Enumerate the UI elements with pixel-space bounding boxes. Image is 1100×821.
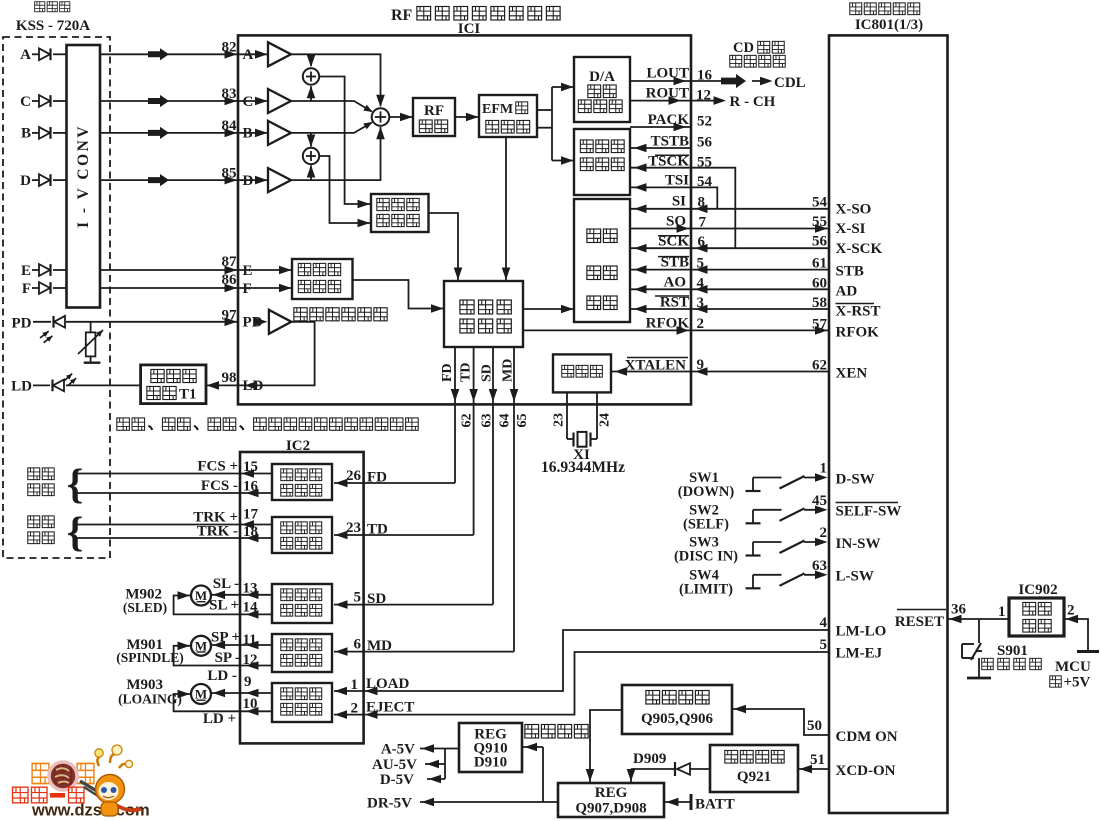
svg-text:(SELF): (SELF): [683, 516, 729, 532]
IC2 title 聚焦、跟踪、雪橇、主轴及加载电机驱动电路: [117, 418, 130, 430]
ROUT output arrow to R-CH: [691, 100, 717, 102]
crystal X1 16.9344MHz: [566, 392, 568, 439]
reset switch S901 复位开关: [978, 619, 980, 643]
svg-text:6: 6: [354, 637, 362, 653]
svg-text:KSS - 720A: KSS - 720A: [16, 18, 90, 34]
pin row SI / X-SO 54: [630, 208, 829, 210]
svg-text:63: 63: [480, 414, 495, 428]
svg-text:CD: CD: [733, 40, 754, 56]
svg-text:84: 84: [222, 118, 238, 134]
IC801 box outline: [829, 35, 948, 813]
svg-text:+5V: +5V: [1064, 675, 1091, 691]
LOUT output thick arrow to CDL: [691, 80, 722, 82]
laser driver box 激光管驱动T1: [141, 365, 206, 404]
svg-text:SP +: SP +: [211, 630, 240, 646]
svg-text:FD: FD: [440, 363, 455, 382]
summing node S3 main: [372, 108, 390, 126]
svg-text:AU-5V: AU-5V: [372, 757, 417, 773]
svg-text:SD: SD: [367, 591, 386, 607]
system controller title 系统控制器 IC801(1/3): [850, 3, 862, 15]
svg-text:23: 23: [346, 520, 361, 536]
svg-text:2: 2: [820, 525, 828, 541]
wire A branch to S1: [310, 54, 312, 66]
watermark logo dzsc: [13, 745, 150, 820]
svg-text:1: 1: [820, 461, 828, 477]
svg-text:AO: AO: [664, 275, 687, 291]
loading motor driver 加载电机驱动 box: [272, 683, 332, 722]
svg-text:X-SI: X-SI: [836, 221, 866, 237]
svg-text:MD: MD: [367, 638, 392, 654]
svg-text:16: 16: [243, 479, 259, 495]
svg-text:SELF-SW: SELF-SW: [836, 504, 902, 520]
svg-text:D-5V: D-5V: [380, 772, 414, 788]
switch SW2 (SELF): [753, 509, 782, 511]
svg-text:Q905,Q906: Q905,Q906: [641, 711, 714, 727]
svg-text:A-5V: A-5V: [381, 742, 415, 758]
svg-text:55: 55: [697, 155, 712, 171]
svg-text:52: 52: [697, 114, 712, 130]
wire power control down to REG Q907: [590, 710, 622, 783]
amplifier B: [238, 132, 268, 134]
svg-text:55: 55: [812, 214, 827, 230]
svg-text:54: 54: [812, 195, 828, 211]
wire CDM ON pin50 to power control: [732, 709, 829, 735]
wire EFM outputs to DAC and encoder: [537, 109, 552, 111]
wire focus error det to servo: [429, 213, 459, 281]
svg-text:SL +: SL +: [209, 598, 239, 614]
RESET pin 36 wire: [948, 618, 1010, 620]
variable resistor on PD line: [90, 322, 92, 333]
wire EFM down to servo control: [505, 137, 507, 281]
svg-text:14: 14: [243, 600, 259, 616]
wire B branch to S2: [310, 133, 312, 147]
pin row SO / X-SI 55: [630, 228, 829, 230]
I-V converter box: [67, 45, 101, 308]
svg-text:Q907,D908: Q907,D908: [575, 801, 646, 817]
svg-text:(SPINDLE): (SPINDLE): [116, 650, 184, 665]
regulator box REG Q910 D910: [459, 723, 522, 772]
svg-text:4: 4: [697, 276, 705, 292]
sled motor M902: [191, 586, 211, 606]
svg-text:Q921: Q921: [737, 769, 771, 785]
svg-text:RF: RF: [424, 103, 444, 119]
summing node S1: [303, 68, 319, 84]
svg-text:62: 62: [812, 358, 827, 374]
svg-text:XCD-ON: XCD-ON: [836, 763, 896, 779]
svg-text:REG: REG: [595, 785, 628, 801]
svg-text:60: 60: [812, 276, 827, 292]
svg-text:STB: STB: [836, 264, 864, 280]
svg-text:2: 2: [351, 701, 359, 717]
svg-text:26: 26: [346, 468, 362, 484]
wire A output to S3: [292, 54, 381, 106]
wire XCD-ON pin51 to Q921: [798, 768, 829, 770]
digital encode control box 数字编码控制: [574, 129, 630, 195]
wire S1 output to focus error det: [319, 77, 371, 205]
focus coil wires FCS+ FCS-: [73, 473, 272, 475]
focus coil 聚焦线圈: [28, 468, 40, 480]
svg-text:(DISC IN): (DISC IN): [674, 549, 738, 565]
pin row TSTB: [630, 147, 691, 149]
svg-text:16.9344MHz: 16.9344MHz: [541, 459, 625, 476]
oscillator box 振荡器: [553, 354, 611, 392]
svg-text:17: 17: [243, 507, 259, 523]
loading motor M903: [191, 684, 211, 704]
svg-text:50: 50: [807, 718, 822, 734]
svg-text:AD: AD: [836, 284, 858, 300]
wire E into tracking error det: [238, 269, 292, 271]
tracking error detection box 跟踪错误检测: [292, 259, 353, 299]
svg-text:M: M: [195, 588, 207, 603]
amplifier A: [238, 53, 268, 55]
switch SW1 (DOWN): [753, 477, 782, 479]
svg-text:EJECT: EJECT: [366, 700, 414, 716]
svg-text:63: 63: [812, 558, 827, 574]
svg-text:A: A: [20, 47, 31, 63]
svg-text:15: 15: [243, 459, 258, 475]
svg-text:FCS -: FCS -: [201, 478, 238, 494]
svg-text:11: 11: [243, 632, 257, 648]
tracking coil wires TRK+ TRK-: [73, 524, 272, 526]
diode D909: [690, 768, 710, 770]
svg-text:D: D: [20, 173, 31, 189]
spindle motor driver 主轴电机驱动 box: [272, 634, 332, 672]
wire APC loop to laser driver pin98: [206, 322, 315, 386]
servo control box 伺服控制电路: [444, 281, 523, 347]
svg-text:DR-5V: DR-5V: [367, 796, 412, 812]
wire RF to EFM: [455, 116, 479, 118]
svg-text:23: 23: [552, 413, 567, 427]
EFM demodulator box EFM解调电路: [479, 95, 537, 137]
svg-text:2: 2: [697, 316, 705, 332]
svg-text:56: 56: [697, 135, 713, 151]
svg-text:9: 9: [697, 357, 705, 373]
svg-text:1: 1: [998, 604, 1006, 620]
svg-text:85: 85: [222, 165, 237, 181]
regulator box REG Q907 D908: [558, 783, 664, 817]
svg-text:64: 64: [498, 414, 513, 428]
svg-text:83: 83: [222, 86, 237, 102]
pin row STB / STB 61: [630, 269, 829, 271]
svg-text:SO: SO: [666, 214, 686, 230]
svg-text:B: B: [21, 126, 31, 142]
svg-text:10: 10: [243, 696, 258, 712]
power control box 电源控制 Q921: [710, 745, 798, 792]
svg-text:12: 12: [243, 652, 258, 668]
switch SW3 (DISC IN): [753, 541, 782, 543]
svg-text:57: 57: [812, 317, 828, 333]
svg-text:ROUT: ROUT: [646, 86, 689, 102]
svg-text:LM-EJ: LM-EJ: [836, 646, 883, 662]
wire E to ICI pin: [100, 269, 238, 271]
pin row AO / AD 60: [630, 288, 829, 290]
svg-text:C: C: [20, 94, 31, 110]
svg-text:R - CH: R - CH: [730, 94, 776, 110]
wire tracking error det to servo: [353, 280, 445, 309]
focus coil driver 聚焦线圈驱动 box: [272, 464, 332, 500]
svg-text:T1: T1: [179, 387, 197, 403]
svg-text:D909: D909: [633, 751, 666, 767]
svg-text:5: 5: [697, 256, 705, 272]
battery BATT input: [690, 794, 693, 810]
svg-text:M: M: [195, 687, 207, 702]
wire REG Q907 output to DR-5V and REG Q910: [420, 801, 558, 803]
pin row SCK / X-SCK 56: [630, 247, 829, 249]
svg-text:D910: D910: [474, 755, 507, 771]
svg-text:58: 58: [812, 295, 827, 311]
svg-text:TRK -: TRK -: [197, 524, 238, 540]
svg-text:RST: RST: [660, 295, 689, 311]
svg-text:IC902: IC902: [1018, 582, 1057, 598]
svg-text:X-SO: X-SO: [836, 202, 872, 218]
svg-text:RFOK: RFOK: [646, 316, 690, 332]
wire B to ICI pin: [100, 132, 238, 134]
svg-text:36: 36: [951, 602, 967, 618]
svg-text:L-SW: L-SW: [836, 569, 874, 585]
control interface box 控制接口电路: [574, 199, 630, 322]
svg-text:IN-SW: IN-SW: [836, 536, 881, 552]
wire C to ICI pin: [100, 100, 238, 102]
wire F into tracking error det: [238, 287, 292, 289]
svg-text:5: 5: [354, 590, 362, 606]
svg-text:PD: PD: [12, 316, 32, 332]
switch SW4 (LIMIT): [753, 574, 782, 576]
wire C branch to S1: [310, 86, 312, 101]
svg-text:BATT: BATT: [695, 797, 735, 813]
tracking coil 跟踪线圈: [28, 516, 40, 528]
svg-text:I - V CONV: I - V CONV: [75, 124, 92, 228]
svg-text:SI: SI: [672, 194, 686, 210]
svg-text:EFM: EFM: [482, 102, 513, 117]
wire S3 output to RF processing: [389, 116, 413, 118]
pin row XTALEN / XEN 62: [611, 371, 829, 373]
svg-text:TSTB: TSTB: [651, 134, 689, 150]
svg-text:5: 5: [820, 637, 828, 653]
svg-text:(LOAING): (LOAING): [118, 692, 182, 707]
power section label 电源部分: [525, 724, 539, 738]
pin row TSI with jog to SI: [630, 186, 691, 188]
svg-text:98: 98: [222, 370, 237, 386]
wire servo to control interface: [523, 308, 574, 310]
svg-text:1: 1: [351, 677, 359, 693]
svg-text:56: 56: [812, 234, 828, 250]
wire B output to S3: [292, 123, 372, 133]
ICI box outline: [238, 35, 691, 404]
svg-text:4: 4: [820, 615, 828, 631]
svg-text:MD: MD: [501, 359, 516, 382]
svg-text:LM-LO: LM-LO: [836, 624, 887, 640]
svg-text:(SLED): (SLED): [123, 600, 167, 615]
wire LM-EJ to EJECT: [334, 652, 829, 715]
svg-text:6: 6: [698, 234, 706, 250]
wire S2 output to focus error det: [319, 156, 371, 223]
wire F to ICI pin: [100, 287, 238, 289]
svg-text:X-RST: X-RST: [836, 304, 881, 320]
wire C output to S3: [292, 101, 372, 112]
svg-text:(LIMIT): (LIMIT): [679, 581, 733, 597]
svg-text:F: F: [22, 281, 31, 297]
svg-text:MCU: MCU: [1055, 659, 1091, 675]
pin rows LOUT ROUT: [630, 80, 691, 82]
wire D909 down to REG Q907: [630, 769, 632, 783]
spindle motor M901: [191, 636, 211, 656]
svg-text:18: 18: [243, 524, 258, 540]
svg-text:CDM ON: CDM ON: [836, 729, 898, 745]
svg-text:RF: RF: [391, 7, 413, 24]
wire IC902 pin2 to MCU +5V: [1064, 619, 1088, 650]
svg-text:97: 97: [222, 308, 238, 324]
svg-text:PACK: PACK: [648, 112, 690, 128]
svg-text:24: 24: [598, 413, 613, 427]
DAC box D/A数模转换器: [574, 57, 630, 122]
svg-text:(DOWN): (DOWN): [678, 484, 735, 500]
wire A to ICI pin: [100, 53, 238, 55]
svg-text:M: M: [195, 638, 207, 653]
wire LM-LO to LOAD: [334, 630, 829, 691]
pin row RST / X-RST 58: [630, 308, 829, 310]
svg-text:TD: TD: [459, 363, 474, 382]
svg-text:SL -: SL -: [213, 576, 239, 592]
svg-text:3: 3: [697, 295, 705, 311]
svg-text:RFOK: RFOK: [836, 325, 880, 341]
RF processing box RF处理: [413, 98, 455, 136]
svg-text:LD: LD: [11, 379, 32, 395]
wire D branch to S2: [310, 166, 312, 181]
svg-text:62: 62: [460, 414, 475, 428]
svg-text:7: 7: [699, 215, 707, 231]
summing node S2: [303, 148, 319, 164]
svg-text:87: 87: [222, 254, 238, 270]
svg-text:SP -: SP -: [215, 650, 240, 666]
svg-text:{: {: [67, 510, 84, 556]
wire D output to S3: [292, 127, 381, 180]
svg-text:65: 65: [515, 414, 530, 428]
svg-text:CDL: CDL: [774, 75, 806, 91]
laser head dashed enclosure: [3, 37, 110, 558]
focus error detection box 聚焦错误检测: [371, 194, 429, 232]
svg-text:8: 8: [698, 195, 706, 211]
amplifier C: [238, 100, 268, 102]
servo drive lines FD TD SD MD: [454, 347, 456, 404]
PD light arrows: [40, 331, 49, 338]
svg-text:9: 9: [244, 674, 252, 690]
IC2 box outline: [240, 452, 364, 743]
tracking coil driver 跟踪线圈驱动 box: [272, 517, 332, 553]
svg-text:2: 2: [1067, 603, 1075, 619]
svg-text:FD: FD: [367, 470, 387, 486]
LD light arrows: [64, 374, 72, 381]
svg-text:LD -: LD -: [207, 668, 237, 684]
svg-text:X-SCK: X-SCK: [836, 241, 883, 257]
svg-text:86: 86: [222, 272, 238, 288]
pin row PACK: [630, 126, 691, 128]
pin row TSCK with jog to X-SCK: [630, 167, 691, 169]
amplifier D: [238, 179, 268, 181]
pin row RFOK / RFOK 57: [523, 329, 829, 331]
power control box 电源控制 Q905 Q906: [622, 685, 732, 734]
svg-text:RESET: RESET: [895, 614, 944, 630]
svg-text:LOAD: LOAD: [366, 676, 410, 692]
svg-text:E: E: [21, 263, 31, 279]
svg-text:XEN: XEN: [836, 366, 868, 382]
outputs A-5V AU-5V D-5V: [420, 748, 459, 750]
svg-text:51: 51: [810, 752, 825, 768]
laser head title 激光头 KSS-720A: [35, 2, 45, 12]
svg-text:TSI: TSI: [665, 173, 689, 189]
APC amplifier 自动功率控制: [255, 318, 268, 327]
sled motor driver 雪橇电机驱动 box: [272, 584, 332, 623]
svg-text:FCS +: FCS +: [197, 459, 238, 475]
svg-text:IC801(1/3): IC801(1/3): [855, 17, 923, 33]
svg-text:13: 13: [243, 581, 258, 597]
wire D to ICI pin: [100, 179, 238, 181]
svg-text:54: 54: [697, 174, 713, 190]
svg-text:XTALEN: XTALEN: [625, 358, 687, 374]
svg-text:{: {: [67, 462, 84, 508]
svg-text:D/A: D/A: [589, 69, 615, 85]
svg-text:LOUT: LOUT: [646, 66, 689, 82]
drive input rows FD TD SD MD into IC2: [334, 482, 455, 484]
svg-text:SD: SD: [480, 364, 495, 382]
svg-text:S901: S901: [997, 643, 1028, 659]
svg-text:D-SW: D-SW: [836, 472, 875, 488]
svg-text:LD +: LD +: [203, 711, 236, 727]
svg-text:61: 61: [812, 256, 827, 272]
svg-text:TD: TD: [367, 522, 388, 538]
svg-text:82: 82: [222, 40, 237, 56]
svg-text:45: 45: [812, 493, 827, 509]
